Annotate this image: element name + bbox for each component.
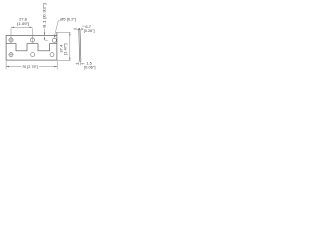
hinge side view (edge) [79,29,81,61]
svg-text:8.1 [0.32"]: 8.1 [0.32"] [42,3,47,28]
leader Ø5 [0.2"] [54,21,60,38]
hole center marks [8,40,13,57]
right edge extension up to 37.4 ext line [56,33,58,36]
dimension 8.1 [0.32"] vertical [45,29,48,41]
svg-text:[1.47"]: [1.47"] [63,43,68,54]
hinge front view outline [6,33,57,61]
dimension 1.5 [0.06"] [76,62,85,66]
screw holes top row [9,38,57,57]
svg-text:[0.06"]: [0.06"] [84,65,95,70]
svg-text:Ø5 [0.2"]: Ø5 [0.2"] [60,16,76,21]
knuckle joint square-wave line [6,44,57,51]
barrel blob at top of side view [77,28,80,29]
dimension 70 [2.75"] [6,61,57,70]
dimension 27.8 [1.09"] [11,27,33,43]
svg-text:[1.09"]: [1.09"] [17,21,29,26]
svg-text:[0.26"]: [0.26"] [84,28,95,33]
screw holes bottom row [9,53,13,57]
dimension 37.4 [1.47"] vertical [56,32,71,60]
svg-text:70 [2.75"]: 70 [2.75"] [22,64,38,69]
dimension 6.7 [0.26"] [74,26,85,30]
